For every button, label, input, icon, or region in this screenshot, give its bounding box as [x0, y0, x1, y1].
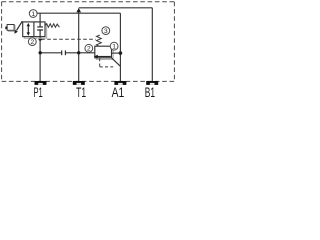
svg-text:1: 1 — [31, 11, 35, 18]
wire A1 riser — [119, 13, 121, 81]
wire valve top port — [39, 13, 41, 22]
junction dot on A1 riser — [119, 51, 123, 55]
valve V1 divider — [33, 22, 35, 37]
wire L2 upper line from arrow to B1 riser — [79, 7, 153, 9]
svg-text:B1: B1 — [145, 85, 155, 100]
svg-text:2: 2 — [30, 39, 34, 46]
coupling tick left — [61, 50, 63, 55]
valve V2 internal arrow — [97, 56, 111, 58]
node 1 circle (right) — [110, 42, 118, 50]
valve V2 spring — [97, 35, 102, 46]
valve V2 body — [95, 46, 112, 58]
valve V1 actuator nub — [5, 27, 7, 30]
port B1 bar — [146, 81, 158, 85]
port P1 bar — [35, 81, 47, 85]
wire P1 riser — [39, 37, 41, 81]
flow arrowhead up on T1 riser — [76, 8, 81, 12]
wire H1 P-branch left segment — [40, 52, 62, 54]
enclosure dashed border — [2, 2, 175, 82]
svg-text:2: 2 — [87, 46, 91, 53]
port A1 bar — [114, 81, 126, 85]
wire T1 riser — [78, 10, 80, 81]
valve V1 body — [23, 22, 45, 37]
svg-text:T1: T1 — [76, 85, 86, 100]
valve V1 actuator box — [8, 26, 15, 32]
dashed pilot line — [41, 38, 96, 40]
valve V2 body shadow — [96, 48, 113, 60]
svg-text:P1: P1 — [33, 85, 42, 100]
wire L1 top line from node 1 to A1 riser — [37, 12, 121, 14]
wire H1 P-branch right segment into valve — [65, 52, 94, 54]
node 1 circle (left) — [29, 10, 37, 18]
junction dot on P1 riser (H1) — [39, 51, 42, 54]
valve V1 left cell double arrow — [27, 26, 29, 33]
valve V1 right cell blocked ports — [37, 22, 43, 37]
valve V1 spring — [45, 24, 59, 28]
wire B1 riser — [151, 8, 153, 81]
node 3 circle — [102, 27, 110, 35]
svg-text:1: 1 — [112, 44, 116, 51]
valve V2 drain pilot dashed — [100, 58, 114, 67]
valve V1 proportional arrow — [17, 21, 23, 30]
port T1 bar — [73, 81, 85, 85]
valve V2 drain diagonal — [112, 58, 121, 67]
node 2 circle (right) — [85, 44, 93, 52]
node 2 circle (left) — [28, 38, 36, 46]
junction dot on P1 riser (pilot) — [39, 37, 42, 40]
valve V2 output line — [112, 52, 121, 54]
svg-text:A1: A1 — [112, 85, 125, 100]
junction dot on T1 riser — [77, 51, 80, 54]
coupling tick right — [64, 50, 66, 55]
svg-text:3: 3 — [104, 28, 108, 35]
valve V1 body shadow — [24, 24, 46, 39]
